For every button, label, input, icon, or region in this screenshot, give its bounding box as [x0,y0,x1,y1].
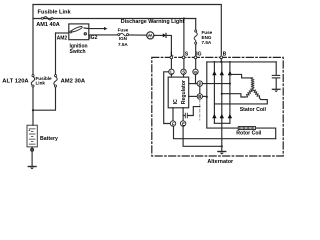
node battery junction [32,109,34,111]
rotor coil [238,127,255,130]
node S border crossing [182,56,185,59]
diode D2 upper [220,71,224,75]
svg-text:7.5A: 7.5A [202,40,212,45]
ground (alternator) [218,152,226,155]
diode D3 upper [228,71,232,75]
rectifier phase 1 vertical [213,62,215,123]
wire lamp to diode [154,34,163,36]
svg-text:IC: IC [173,99,179,104]
wire S vertical [183,19,185,70]
wire bottom bus to ground [221,123,223,151]
wire F to rotor [174,126,276,139]
svg-text:IG2: IG2 [89,35,97,41]
wire S stub into regulator [183,75,185,78]
fusible link ALT 120A [31,75,34,88]
node P phase tap [229,83,231,85]
arrowhead to other circuits [104,27,108,30]
svg-text:ALT 120A: ALT 120A [2,79,29,85]
svg-text:E: E [182,121,185,126]
wire AM2 to ignition switch [56,32,69,34]
terminal IG [193,69,198,74]
wire E dash-dot chassis below B(reg) [199,99,201,120]
wire rotor right to F line [256,128,276,139]
rectifier bottom bus [214,122,230,124]
node stator tap 2 [221,93,223,95]
IC regulator box [168,77,189,108]
svg-text:Stator Coil: Stator Coil [240,107,267,113]
svg-text:AM2: AM2 [57,36,68,42]
terminal P [197,81,202,86]
wire B(reg) to B+ vertical [203,95,207,97]
wire IG stub down to P line [195,75,197,84]
wire stator phase 1 tap [214,98,267,104]
ground (battery) [28,167,36,170]
svg-text:Switch: Switch [70,49,86,55]
wire E to ground bus [183,126,222,146]
node B tap [206,96,208,98]
node E ground junction [221,145,223,147]
wire P to regulator [189,83,197,85]
ground (capacitor) [272,89,280,92]
wire B to rectifier bus [220,59,222,62]
svg-text:IG: IG [194,70,198,74]
svg-text:AM1 40A: AM1 40A [36,22,60,28]
warning lamp bulb [147,32,154,39]
svg-text:S: S [182,70,185,75]
fusible link AM2 30A [54,75,57,88]
svg-text:L: L [170,70,173,75]
terminal E [180,121,185,126]
node bus phase 3 junction [229,61,231,63]
svg-text:B: B [198,94,201,99]
diode D5 lower [220,114,224,118]
alternator dash-dot border [152,57,283,156]
svg-text:7.5A: 7.5A [118,42,128,47]
wire IG2 to warning lamp [89,34,118,36]
fuse ENG 7.5A [194,30,197,44]
wire P to B link [199,86,201,93]
rectifier top bus [207,61,276,63]
diode in lamp circuit [163,33,166,37]
diode D4 lower [212,114,216,118]
wire E stub to regulator [182,108,184,121]
svg-text:S: S [185,52,189,58]
node IG border crossing [194,56,197,59]
svg-text:Fuse: Fuse [118,28,129,33]
terminal S [181,69,186,74]
node junction S branch [183,17,185,19]
wire stator phase 2 tap [222,94,246,97]
wire L to F loop [164,72,171,124]
node L border crossing [170,56,173,59]
svg-text:Discharge Warning Light: Discharge Warning Light [121,19,185,25]
svg-text:P: P [199,81,202,86]
terminal B (regulator) [197,94,202,99]
svg-text:AM2 30A: AM2 30A [61,79,86,85]
fusible link AM1 40A [41,17,53,20]
capacitor (regulator) [183,107,200,118]
svg-text:IGN: IGN [119,36,128,41]
svg-text:Alternator: Alternator [207,159,234,165]
fuse IGN 7.5A [118,33,129,36]
svg-text:B: B [223,52,227,58]
wire switch arrow line [84,27,104,30]
terminal L [169,69,174,74]
capacitor (noise suppressor) [272,62,279,89]
wire F stub to regulator [172,108,174,121]
diode D1 upper [212,71,216,75]
ignition switch lever [71,26,83,33]
wire left battery vertical [32,5,34,75]
wire stator phase 3 tap [230,74,253,78]
battery [27,125,37,147]
wire IG vertical upper [195,19,197,31]
svg-text:F: F [172,121,175,126]
rectifier phase 3 vertical [229,62,231,123]
ignition switch contact IG2 [84,33,86,35]
terminal B [220,56,223,59]
wire AM1 horizontal [33,18,196,20]
diode D6 lower [228,114,232,118]
svg-text:+: + [28,128,30,132]
svg-text:Fusible Link: Fusible Link [38,9,72,15]
ignition switch box [69,24,89,40]
wire P to rectifier phase [203,83,230,85]
terminal F [170,121,175,126]
wire IG vertical lower [195,44,197,69]
wire B(reg) to regulator [189,95,197,97]
svg-text:Rotor Coil: Rotor Coil [236,131,262,137]
wire B+ vertical to rotor [207,62,238,128]
wire AM2 branch vertical [55,33,57,75]
wire top bus from battery feed to B terminal [33,5,221,56]
node bus B junction [220,61,222,63]
wire L stub into regulator [170,75,172,78]
rectifier phase 2 vertical [221,62,223,123]
battery terminal circle [31,148,34,151]
stator coil [246,78,260,98]
node bus phase 1 junction [214,61,216,63]
svg-text:Link: Link [36,80,46,85]
svg-text:Regulator: Regulator [181,80,187,104]
wire battery to ground [31,147,33,166]
svg-text:Battery: Battery [40,136,58,142]
wire diode to L terminal [166,35,171,69]
